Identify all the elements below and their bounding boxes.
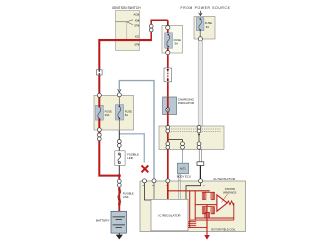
wire red JB to alternator bbox=[167, 150, 169, 182]
connector C5 bbox=[117, 179, 121, 187]
connector C3 bbox=[164, 68, 172, 82]
junction box JB bbox=[159, 126, 224, 150]
wire white ALTL drop upper bbox=[178, 174, 180, 182]
svg-text:IG1: IG1 bbox=[135, 18, 140, 22]
wire red regulator stubs bbox=[188, 222, 196, 226]
connector C1 bbox=[96, 70, 102, 75]
alternator box bbox=[140, 181, 246, 232]
ground battery bbox=[116, 235, 123, 240]
wire red drop V2 bbox=[194, 191, 196, 220]
terminal bbox=[97, 128, 101, 132]
connector C6 bbox=[197, 162, 204, 166]
svg-text:ALTL: ALTL bbox=[180, 167, 187, 171]
terminal IG bbox=[152, 179, 156, 183]
svg-text:FUSE: FUSE bbox=[105, 109, 112, 113]
svg-text:5A: 5A bbox=[125, 113, 128, 117]
leader line bbox=[222, 194, 228, 202]
svg-text:BODY ECU: BODY ECU bbox=[177, 175, 191, 179]
terminal bbox=[166, 51, 170, 55]
fuse box F3 gauge bbox=[162, 25, 183, 53]
svg-text:ST1: ST1 bbox=[134, 24, 139, 28]
svg-text:LINK: LINK bbox=[123, 195, 129, 199]
ignition switch SW1 bbox=[116, 11, 140, 51]
wire red drop V1 bbox=[189, 191, 191, 228]
svg-text:5A: 5A bbox=[175, 42, 178, 46]
svg-text:ROTOR FIELD COIL: ROTOR FIELD COIL bbox=[211, 227, 236, 231]
svg-text:ST2: ST2 bbox=[134, 43, 139, 47]
wire bbox=[118, 233, 120, 235]
wire red gauge-fuse drop bbox=[167, 20, 169, 126]
wire white ALTL internal bbox=[178, 181, 180, 199]
svg-text:IG2: IG2 bbox=[135, 35, 140, 39]
rotor field coil bbox=[205, 212, 210, 217]
wire red AM2 horizontal bbox=[98, 39, 151, 41]
wire black fusible link column bbox=[118, 130, 120, 176]
wire red top header bbox=[168, 190, 210, 192]
terminal L bbox=[166, 179, 170, 183]
wire gray to ALTL bbox=[182, 150, 184, 164]
svg-text:FUSE: FUSE bbox=[125, 109, 132, 113]
wire red through JB bbox=[167, 126, 169, 150]
zigzag winding bbox=[227, 201, 234, 220]
terminal pair bottom right bbox=[197, 142, 201, 149]
body ECU box ALTL bbox=[178, 163, 189, 174]
wire white outlined bbox=[199, 150, 201, 163]
svg-text:30A: 30A bbox=[105, 113, 110, 117]
svg-text:IG: IG bbox=[152, 185, 155, 187]
fusible link FL1 bbox=[115, 151, 125, 166]
wire black to S terminal bbox=[199, 166, 201, 181]
wire red ground feed bbox=[188, 227, 207, 229]
junction dot bbox=[118, 174, 121, 177]
arrow into fuse bbox=[118, 89, 121, 92]
wire W thick white bbox=[198, 41, 202, 127]
wire red ground drop V3 bbox=[206, 205, 208, 235]
terminal bbox=[166, 26, 170, 30]
svg-text:BATTERY: BATTERY bbox=[96, 219, 110, 223]
svg-text:FUSE: FUSE bbox=[205, 21, 212, 25]
terminal bbox=[97, 93, 101, 97]
terminal pair top right bbox=[197, 126, 201, 133]
svg-text:WINDINGS: WINDINGS bbox=[223, 191, 237, 195]
connector on riser bbox=[149, 24, 153, 32]
arrow from power source bbox=[199, 11, 202, 16]
stator windings coils bbox=[202, 192, 214, 214]
wire gray IG sense bridge bbox=[119, 81, 154, 181]
wire red L internal bbox=[167, 181, 169, 199]
svg-text:FROM POWER SOURCE: FROM POWER SOURCE bbox=[181, 6, 231, 10]
terminal pair bottom left bbox=[166, 142, 170, 149]
battery bbox=[111, 211, 127, 233]
svg-text:ALTERNATOR: ALTERNATOR bbox=[213, 177, 236, 181]
wire black B internal bbox=[145, 183, 152, 200]
connector C4 bbox=[117, 140, 121, 148]
terminal pair top left bbox=[166, 126, 170, 133]
fuse box F2 from power source bbox=[194, 17, 215, 40]
svg-text:LINK: LINK bbox=[127, 156, 133, 160]
wire red bottom headers bbox=[190, 218, 234, 220]
svg-text:ACC: ACC bbox=[134, 13, 140, 17]
wire gray IG internal bbox=[153, 183, 155, 200]
connector C2 bbox=[97, 133, 101, 141]
wire red mid header bbox=[195, 204, 217, 206]
svg-text:STATOR: STATOR bbox=[225, 187, 235, 191]
terminal bbox=[117, 93, 121, 97]
terminal pair bottom middle bbox=[181, 142, 185, 149]
diode triangle bbox=[217, 195, 227, 211]
wire gray to break point bbox=[119, 134, 144, 163]
svg-text:INDICATOR: INDICATOR bbox=[178, 101, 195, 105]
wire red IG1 riser bbox=[151, 20, 168, 41]
fusible link FL2 bbox=[118, 188, 121, 205]
terminal bbox=[198, 37, 202, 41]
wire red battery drop bbox=[118, 176, 120, 212]
X break mark bbox=[142, 165, 149, 172]
ground alternator bbox=[204, 235, 210, 240]
svg-text:FUSE: FUSE bbox=[174, 38, 181, 42]
fuse box F1 two fuses bbox=[94, 95, 134, 130]
charging indicator lamp bbox=[163, 97, 177, 115]
terminal S bbox=[199, 179, 203, 183]
IC regulator bbox=[151, 199, 188, 231]
terminal B bbox=[143, 179, 147, 183]
wire red left main drop bbox=[99, 39, 119, 176]
svg-text:IC REGULATOR: IC REGULATOR bbox=[158, 213, 181, 217]
svg-text:5A: 5A bbox=[206, 25, 209, 29]
svg-text:IGNITION SWITCH: IGNITION SWITCH bbox=[112, 6, 141, 10]
wire black S internal bbox=[186, 183, 201, 200]
